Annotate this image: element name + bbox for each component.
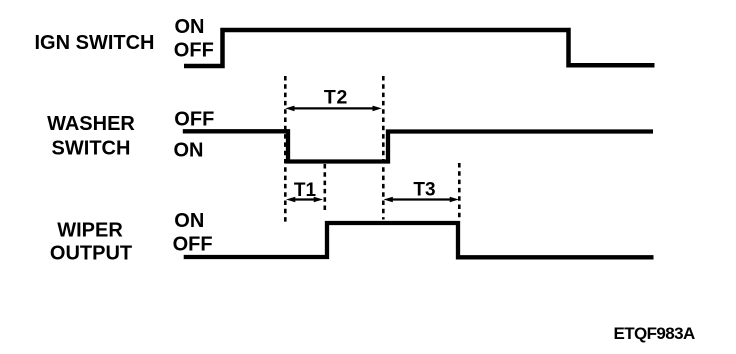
IGN SWITCH waveform: low, rise, high, fall, low <box>184 30 655 66</box>
dashed guide line at washer-press edge (left T2 boundary) <box>284 76 287 222</box>
svg-text:T3: T3 <box>413 180 435 201</box>
WIPER OUTPUT OFF level label <box>173 234 213 256</box>
label WIPER OUTPUT <box>50 220 132 265</box>
WASHER SWITCH OFF level label <box>174 109 214 131</box>
dashed guide line at wiper-off edge (right T3 boundary) <box>458 163 461 220</box>
figure code ETQF983A <box>614 324 695 343</box>
dashed guide line at wiper-on edge (right T1 boundary) <box>323 164 326 213</box>
svg-text:ETQF983A: ETQF983A <box>614 324 695 343</box>
WIPER OUTPUT ON level label <box>174 210 204 232</box>
dashed guide line at washer-release edge (right T2 boundary) <box>382 76 385 220</box>
svg-text:OFF: OFF <box>174 40 214 62</box>
T1 dimension arrow (double headed) <box>286 197 323 203</box>
svg-text:WIPER: WIPER <box>57 220 123 242</box>
svg-text:OFF: OFF <box>174 109 214 131</box>
WIPER OUTPUT waveform: low(OFF), rise, high(ON), fall, low(OFF) <box>184 223 654 257</box>
svg-text:ON: ON <box>175 16 205 38</box>
WASHER SWITCH ON level label <box>174 140 204 162</box>
T3 dimension arrow (double headed) <box>384 197 460 203</box>
svg-text:WASHER: WASHER <box>47 113 135 135</box>
svg-text:OUTPUT: OUTPUT <box>50 243 132 265</box>
T2 dimension label <box>324 87 348 109</box>
svg-text:T1: T1 <box>294 180 317 201</box>
svg-text:IGN SWITCH: IGN SWITCH <box>35 32 155 54</box>
svg-text:SWITCH: SWITCH <box>52 138 131 160</box>
svg-text:T2: T2 <box>324 87 348 109</box>
T3 dimension label <box>413 180 435 201</box>
label IGN SWITCH <box>35 32 155 54</box>
label WASHER SWITCH <box>47 113 135 160</box>
svg-text:ON: ON <box>174 210 204 232</box>
T2 dimension arrow (double headed) <box>285 106 382 112</box>
svg-text:OFF: OFF <box>173 234 213 256</box>
IGN SWITCH ON level label <box>175 16 205 38</box>
IGN SWITCH OFF level label <box>174 40 214 62</box>
T1 dimension label <box>294 180 317 201</box>
svg-text:ON: ON <box>174 140 204 162</box>
WASHER SWITCH waveform: high(OFF), fall, low(ON), rise, high(OFF) <box>183 131 653 161</box>
